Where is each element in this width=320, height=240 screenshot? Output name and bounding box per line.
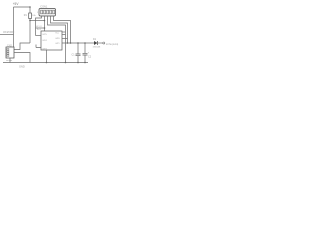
svg-text:+: + — [88, 51, 90, 54]
wire MCLR horizontal — [36, 27, 45, 29]
wire IC right stub y34.5 — [62, 34, 66, 36]
wire ON/OFF from left edge — [0, 34, 14, 36]
svg-text:ON/OFF: ON/OFF — [3, 30, 14, 34]
wire diode out — [98, 42, 104, 44]
svg-text:C1: C1 — [72, 54, 76, 57]
wire R1 bottom — [29, 19, 31, 21]
svg-text:sensor: sensor — [6, 59, 13, 62]
wire R1 top — [29, 7, 31, 13]
wire IC left pin GP3 stub — [36, 45, 41, 48]
node dot rail x68 — [67, 42, 69, 44]
node junction dot R1 bottom — [29, 20, 31, 22]
wire CN2 pin2 — [14, 53, 30, 63]
svg-text:+5V: +5V — [13, 2, 20, 6]
wire connector pin2 — [44, 16, 46, 31]
ground rail — [3, 62, 88, 64]
wire R1 net vertical down — [29, 21, 31, 44]
svg-text:CN2: CN2 — [7, 44, 12, 47]
wire connector pin1 — [36, 16, 42, 36]
capacitor C1 — [77, 43, 79, 54]
resistor R1 — [29, 13, 32, 19]
connector CON1 pin squares — [41, 10, 55, 14]
node dot pin2 y28 — [44, 27, 46, 29]
wire jog to box pin1 — [14, 43, 30, 50]
svg-text:10k: 10k — [32, 15, 36, 17]
svg-text:to the pump: to the pump — [106, 43, 119, 46]
wire +5V horizontal top — [14, 6, 31, 8]
connector CON1 — [39, 9, 56, 17]
node dot rail x78 — [77, 42, 79, 44]
svg-text:GP0: GP0 — [55, 38, 60, 40]
svg-text:GND: GND — [19, 65, 25, 69]
svg-text:C2: C2 — [88, 56, 92, 59]
node output terminal — [103, 42, 105, 44]
node dot rail gnd x85 — [84, 62, 86, 64]
node dot rail x65.5 — [65, 62, 67, 64]
svg-text:GP1: GP1 — [55, 43, 60, 45]
diode D1 — [94, 41, 98, 45]
svg-text:IC1: IC1 — [37, 28, 41, 31]
connector CN2 pin nubs — [7, 49, 9, 57]
svg-text:GP5: GP5 — [42, 34, 47, 36]
wire IC bottom Vss pin — [46, 50, 48, 63]
op-amp IC1 box — [41, 31, 62, 50]
node dot rail x44.5 — [46, 62, 48, 64]
connector CN2 box — [6, 47, 14, 58]
node junction dot top — [29, 6, 31, 8]
svg-text:D1: D1 — [93, 38, 97, 41]
wire IC right stub y32 — [62, 31, 66, 33]
node dot rail x85 — [84, 42, 86, 44]
wire R1 net horizontal — [30, 20, 45, 22]
wire +5V vertical left — [13, 7, 15, 47]
wire connector pin4 — [51, 16, 68, 43]
svg-text:R1: R1 — [24, 14, 28, 17]
wire main rail right — [62, 42, 94, 44]
node dot pin2 R1 net — [44, 20, 46, 22]
wire IC right stub y38.5 — [62, 38, 68, 40]
svg-text:GP4: GP4 — [42, 40, 47, 42]
wire IC left pin GP5 stub — [36, 35, 42, 37]
wire connector pin3 — [48, 16, 66, 63]
node dot rail x70.5 — [70, 42, 72, 44]
capacitor C2 — [84, 43, 86, 53]
svg-text:1N4148: 1N4148 — [93, 47, 101, 49]
node dot rail gnd x78 — [77, 62, 79, 64]
wire connector pin5 — [54, 16, 71, 43]
wire CN2 bottom gnd — [9, 58, 11, 63]
svg-text:CON1: CON1 — [40, 5, 48, 8]
